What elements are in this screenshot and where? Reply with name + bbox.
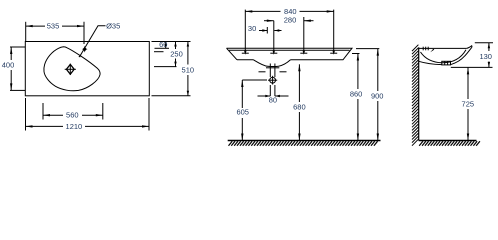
side view faucet hole ticks	[422, 47, 424, 51]
svg-text:280: 280	[284, 15, 297, 24]
dimension 30	[259, 27, 282, 34]
front view floor line	[228, 140, 381, 142]
dimension 60 (right of top view)	[154, 42, 169, 52]
svg-text:Ø35: Ø35	[106, 22, 120, 31]
dimension 680	[298, 64, 300, 140]
svg-text:510: 510	[182, 65, 195, 74]
extension lines for 860/900	[356, 48, 379, 50]
drain circle symbol	[268, 76, 277, 85]
side view drain nut	[442, 61, 451, 65]
side view extension line y42.7	[475, 42, 493, 44]
dimension 860	[357, 54, 359, 141]
svg-text:1210: 1210	[66, 122, 83, 131]
dimension 280	[264, 20, 314, 22]
svg-text:250: 250	[170, 50, 183, 59]
side view underside	[419, 56, 465, 64]
svg-text:605: 605	[236, 107, 249, 116]
dimension 840	[245, 10, 333, 12]
drain marker in basin	[65, 64, 76, 75]
dimension 80	[258, 95, 289, 97]
leader mark on outline	[78, 54, 80, 57]
leader line Ø35	[80, 26, 105, 56]
top view right side extension lines	[152, 41, 191, 43]
side view front rim beak	[465, 46, 472, 57]
svg-text:130: 130	[479, 52, 492, 61]
side view wall hatch	[412, 45, 418, 146]
side view wall line	[418, 47, 420, 140]
top view countertop rectangle	[25, 42, 149, 96]
svg-text:535: 535	[47, 22, 60, 31]
dimension 1210	[26, 98, 150, 131]
dimension 535	[26, 22, 84, 44]
front view floor hatch	[229, 141, 378, 146]
pipe below drain	[270, 85, 275, 96]
svg-text:30: 30	[248, 24, 256, 33]
dimension 400	[10, 47, 25, 90]
side view small arrow on deck	[430, 49, 434, 53]
dimension 510 (right of top view)	[187, 42, 189, 96]
svg-text:860: 860	[350, 89, 363, 98]
faucet hole diamond	[82, 46, 88, 53]
dimension 725	[467, 67, 469, 140]
side view extension line y67.4	[451, 66, 493, 68]
dimension 130	[488, 43, 490, 68]
svg-text:80: 80	[269, 95, 277, 104]
svg-text:725: 725	[462, 100, 475, 109]
front view bowl	[254, 60, 291, 67]
fixing marks on slab	[242, 10, 337, 55]
svg-text:560: 560	[66, 111, 79, 120]
dimension 560	[43, 103, 103, 120]
side view bowl inner curve	[421, 50, 467, 63]
side view floor hatch	[419, 141, 480, 146]
front view slab	[227, 48, 353, 60]
svg-text:680: 680	[293, 103, 306, 112]
drain pipe under bowl	[259, 64, 287, 78]
dimension 250 (right of top view)	[154, 42, 177, 67]
svg-text:400: 400	[2, 60, 15, 69]
basin outline	[44, 47, 100, 91]
side view floor line	[419, 140, 477, 142]
svg-text:60: 60	[159, 40, 167, 49]
dimension 900	[377, 49, 379, 141]
svg-text:900: 900	[371, 92, 384, 101]
side view deck top	[419, 47, 467, 49]
dimension 605	[241, 80, 267, 141]
